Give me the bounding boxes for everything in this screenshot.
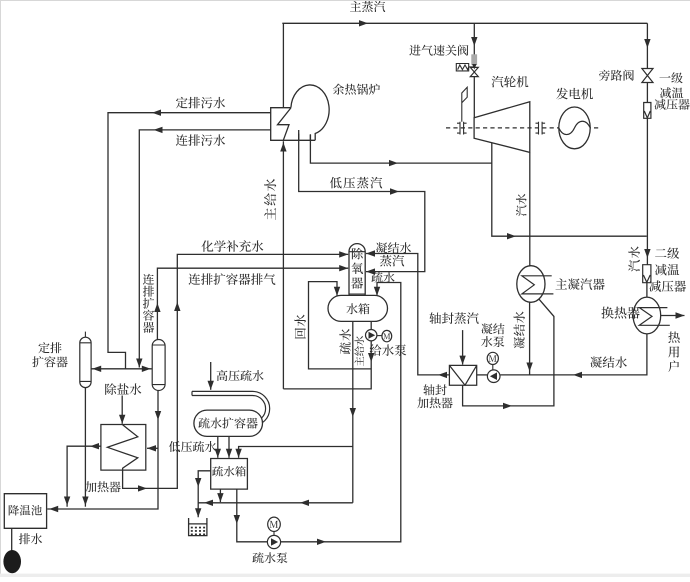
label steam turbine: [492, 76, 529, 88]
coupling left: [457, 122, 467, 135]
label condensate pump line1: [481, 323, 504, 334]
arrow main-steam right: [359, 20, 368, 26]
arrow overflow into sump: [195, 508, 201, 517]
arrow sat-steam right: [389, 160, 398, 166]
arrow condensate left-2: [438, 372, 447, 378]
arrow into heater right: [147, 445, 156, 451]
label flash tank vent: [189, 273, 276, 285]
wire gland-heater drain: [463, 299, 554, 406]
bottom gray strip: [0, 574, 690, 577]
wire cont-tank drain: [47, 391, 158, 509]
arrow drain into watertank: [374, 287, 380, 296]
label feed discharge vertical: [354, 336, 364, 366]
deaerator seams: [349, 252, 365, 294]
arrow gland-steam down: [459, 356, 465, 365]
arrow flash-outlet-2 down: [226, 449, 232, 458]
wire turbine extraction: [492, 143, 647, 236]
drain flash tank: [194, 410, 263, 436]
label makeup heater: [85, 481, 121, 492]
attemperator-2 body: [643, 265, 651, 283]
arrow condenser-drain down: [526, 363, 532, 372]
wire drain-tank overflow: [198, 471, 211, 518]
label fixed flash tank line1: [38, 342, 61, 353]
condenser sigma coil: [522, 276, 554, 294]
wire drain branch to drain-tank: [239, 447, 353, 458]
wire flash-tank vent: [157, 268, 348, 339]
quick-closing valve bowtie: [470, 67, 478, 76]
arrow into cooling pool: [49, 506, 58, 512]
arrow hp-drain down: [208, 381, 214, 390]
arrow into attemperator-2: [644, 249, 650, 258]
wire condensate heater-to-deaerator: [366, 254, 449, 375]
arrow fixed-drain down: [82, 497, 88, 506]
wire boiler steam riser: [282, 23, 284, 107]
fixed tank seams: [80, 343, 91, 382]
arrow sump-header left mid: [300, 500, 309, 506]
main condenser circle: [517, 266, 545, 303]
wire boiler sat-steam pipe: [310, 135, 491, 163]
label stage-2 line1: [655, 247, 679, 259]
label fixed blowdown: [176, 97, 225, 109]
makeup heater coil: [107, 425, 137, 470]
wire gland steam: [462, 330, 464, 365]
generator sine wave: [559, 121, 590, 134]
label condenser drain vertical: [514, 311, 525, 348]
drain sump walls: [189, 518, 207, 536]
waste water outfall: [3, 550, 21, 573]
label bypass steam-water: [628, 246, 640, 271]
drain sump water dots: [191, 527, 205, 536]
boiler drum circle: [291, 85, 329, 140]
wire demin water: [121, 396, 123, 424]
arrow heater-out left: [90, 443, 99, 449]
label main steam: [350, 1, 385, 12]
label condensate pump line2: [481, 336, 504, 347]
wire bypass mid: [646, 82, 648, 102]
arrow steam into deaerator: [366, 268, 375, 274]
arrow cont-blowdown down: [136, 359, 142, 368]
arrow cont-drain down: [155, 411, 161, 420]
arrow demin into heater: [119, 415, 125, 424]
deaerator vessel: [349, 244, 365, 303]
label stage-1 line1: [659, 72, 682, 83]
wire hp drain: [210, 362, 212, 390]
label condensate return: [590, 356, 627, 368]
arrow to heat-user: [676, 312, 685, 318]
label gland heater line2: [417, 397, 453, 408]
label generator: [556, 88, 593, 100]
boiler flame zigzag: [278, 108, 291, 140]
drain sump waterline: [189, 523, 207, 525]
label stage-2 line3: [649, 280, 686, 292]
label deaerator: [351, 248, 363, 289]
wire feed-pump suction: [370, 321, 372, 330]
label gland heater line1: [423, 384, 446, 395]
feed pump circle: [366, 330, 377, 341]
condensate pump motor: [487, 352, 498, 364]
label main feedwater vertical: [264, 179, 276, 220]
wire feed-pump discharge: [283, 341, 371, 389]
wire bypass to junction: [646, 118, 648, 265]
label return water: [294, 315, 306, 339]
condensate pump impeller: [490, 372, 497, 380]
feed pump motor link: [377, 335, 382, 337]
boiler internal pipes: [299, 130, 311, 140]
label heat exchanger: [601, 307, 639, 319]
wire condensate main: [500, 334, 647, 375]
label motor M condensate pump: [489, 355, 497, 361]
wire low-pressure steam: [299, 134, 425, 272]
drain pump motor link: [273, 532, 275, 536]
arrow into fixed flash-tank: [92, 366, 101, 372]
wire cooling-pool drain: [11, 528, 13, 551]
wire turbine inlet upper: [473, 23, 475, 54]
wire turbine exhaust: [529, 152, 531, 266]
label continuous blowdown: [176, 134, 225, 146]
makeup heater box: [101, 425, 146, 471]
valve stem link: [469, 66, 475, 68]
arrow condensate into deaerator: [366, 250, 375, 256]
label cont flash tank vertical: [143, 274, 154, 333]
wire chemical makeup: [123, 254, 349, 488]
arrow pump-suction down: [234, 515, 240, 524]
arrow tank-drain down: [350, 408, 356, 417]
wire watertank drain: [352, 321, 354, 503]
attemperator-1 body: [644, 103, 651, 119]
label fixed flash tank line2: [32, 356, 67, 367]
wire blowdown header: [91, 368, 152, 370]
wire turbine inlet lower: [473, 77, 475, 118]
wire blowdown continuous: [139, 130, 270, 368]
label water tank: [346, 303, 369, 314]
wire heater heating inlet: [147, 447, 158, 449]
label drain flash tank: [198, 418, 257, 429]
arrow turbine inlet down: [471, 37, 477, 46]
wire recirculation to tank: [309, 282, 372, 369]
heat-exchanger circle: [633, 297, 661, 334]
label cooling pool: [9, 505, 42, 516]
arrow cont-blowdown left: [154, 127, 163, 133]
label lp drain: [169, 441, 216, 452]
arrow extraction right: [507, 233, 516, 239]
arrow bypass down: [644, 39, 650, 48]
label heat user: [668, 332, 680, 373]
arrow into drain-tank right: [235, 449, 241, 458]
wire blowdown fixed: [108, 113, 271, 369]
feed pump impeller: [369, 332, 376, 339]
wire drain-tank bottom outlet: [219, 489, 221, 502]
label stage-1 line3: [654, 99, 689, 110]
label waste heat boiler: [333, 84, 380, 95]
wire attemp2 to heat-exchanger: [646, 283, 648, 298]
arrow makeup into deaerator: [339, 251, 348, 257]
label motor M feed pump: [383, 333, 390, 339]
arrow lp-steam right: [390, 188, 399, 194]
fixed blowdown flash tank: [80, 337, 91, 387]
arrow pump discharge down: [368, 353, 374, 362]
label lp steam: [330, 177, 382, 189]
wire flash-tank outlet 2: [228, 436, 230, 457]
governor flag: [462, 87, 467, 122]
wire drain-pump suction: [237, 489, 267, 542]
hp drain loop pipe: [192, 391, 270, 425]
arrow flash-outlet-1 down: [215, 449, 221, 458]
wire heater cooled outlet: [67, 446, 101, 507]
arrow feedwater into boiler: [280, 143, 286, 152]
label waste water: [19, 533, 42, 544]
arrow overflow down mid: [195, 478, 201, 487]
wire condenser drain: [529, 302, 531, 375]
drain pump circle: [267, 535, 280, 548]
wire condensate pump-to-heater: [477, 374, 488, 376]
wire heat-user outlet: [661, 315, 685, 317]
arrow sump-header left end: [204, 500, 213, 506]
wire main-steam header: [282, 22, 647, 24]
cont tank seams: [152, 345, 165, 385]
wire fixed-tank drain: [84, 388, 86, 507]
arrow gland-drain right: [503, 403, 512, 409]
feed pump motor: [382, 330, 392, 341]
arrow tank-bottom down: [217, 493, 223, 502]
label hp drain: [217, 370, 264, 381]
boiler furnace box: [271, 108, 316, 141]
drain pump motor: [268, 517, 281, 531]
arrow condensate left-1: [573, 372, 582, 378]
wire sump header: [198, 502, 353, 504]
condensate pump motor link: [492, 365, 494, 370]
drain tank box: [211, 459, 248, 490]
fixed tank top stub: [84, 332, 86, 338]
label gland steam: [429, 312, 478, 324]
label condenser steam-water: [516, 194, 527, 216]
turbine body: [474, 102, 530, 153]
wire drain-pump discharge: [281, 283, 401, 542]
cooling pool box: [4, 494, 46, 529]
valve actuator: [471, 54, 477, 65]
label motor M drain pump: [270, 521, 279, 528]
label steam to deaerator: [380, 255, 404, 267]
wire bypass drop: [646, 23, 648, 68]
label drains to tank: [371, 272, 394, 283]
label stage-1 line2: [660, 87, 683, 98]
wire main feedwater riser: [282, 141, 284, 389]
arrow drain-pump right: [317, 539, 326, 545]
coupling right: [536, 122, 546, 135]
wire flash-tank outlet 1: [217, 436, 219, 457]
label stage-2 line2: [655, 264, 679, 276]
generator circle: [559, 107, 590, 149]
arrow heater-out right: [138, 485, 147, 491]
label chemical makeup water: [201, 240, 263, 252]
label drain pump: [252, 552, 287, 563]
label bypass valve: [599, 70, 634, 81]
arrow makeup up: [174, 302, 180, 311]
label main condenser: [556, 278, 605, 290]
arrow into cont flash-tank: [142, 366, 151, 372]
label feed pump: [370, 344, 407, 356]
heat-exchanger sigma coil: [639, 308, 670, 326]
label inlet quick-closing valve: [409, 45, 468, 56]
label tank drain vertical: [339, 329, 351, 354]
feedwater tank: [328, 295, 388, 321]
label condensate to deaerator: [376, 242, 411, 253]
bypass valve bowtie: [642, 69, 653, 83]
label drain tank: [212, 466, 246, 477]
continuous blowdown flash tank: [152, 340, 165, 391]
label demin water: [105, 383, 141, 395]
shaft dashed line: [446, 127, 601, 129]
arrow into quick-closing valve: [472, 64, 477, 70]
condensate pump circle: [487, 370, 500, 383]
arrow vent into deaerator: [339, 265, 348, 271]
gland-seal heater box: [449, 365, 476, 385]
valve spring box: [456, 64, 469, 71]
arrow fixed-blowdown left: [152, 110, 161, 116]
drain pump impeller: [271, 538, 278, 546]
arrow recirc into tank: [334, 287, 340, 296]
arrow heater-out down: [64, 497, 70, 506]
arrow vent up: [154, 303, 160, 312]
